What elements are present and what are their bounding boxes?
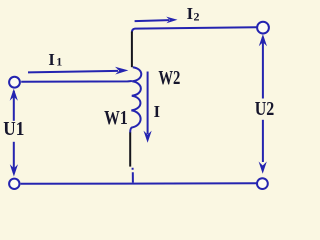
arrow: current I through winding: [144, 72, 152, 143]
wire: black lead from top corner down to winding W2: [131, 32, 133, 68]
svg-text:U2: U2: [255, 98, 275, 120]
wire: black lead from winding W1 bottom: [129, 133, 131, 167]
svg-text:2: 2: [194, 10, 200, 24]
label: I2: [187, 4, 200, 24]
terminal: top-right: [257, 22, 269, 34]
arrow: current I2: [135, 17, 178, 24]
label: I1: [48, 50, 62, 69]
wire: top wire from transformer top to right terminal: [132, 27, 257, 32]
svg-text:U1: U1: [3, 119, 24, 140]
winding W2/W1 coil arcs: [130, 67, 141, 133]
terminal: bottom-left: [9, 179, 19, 189]
arrow: current I1: [28, 67, 128, 75]
arrow: voltage U1 double arrow: [10, 89, 18, 177]
svg-text:1: 1: [56, 55, 62, 69]
svg-text:W1: W1: [104, 107, 128, 129]
arrow: voltage U2 double arrow: [259, 34, 267, 174]
svg-text:I: I: [154, 102, 160, 121]
wire: left wire from left terminal to winding tap: [21, 80, 132, 83]
svg-text:W2: W2: [158, 67, 180, 89]
svg-text:I: I: [48, 50, 54, 69]
svg-text:I: I: [187, 4, 193, 23]
terminal: bottom-right: [257, 178, 268, 189]
terminal: top-left: [9, 77, 20, 88]
wire: bottom wire: [21, 182, 257, 185]
node: dash-dot junction to bottom wire: [132, 168, 134, 183]
